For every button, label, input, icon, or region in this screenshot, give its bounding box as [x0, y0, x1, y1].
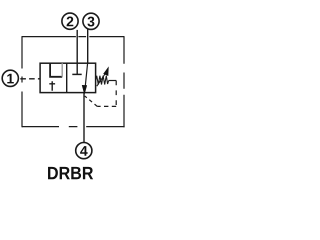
valve body outline: [40, 63, 96, 92]
port 4 circle: [76, 143, 92, 159]
model label DRBR: [48, 167, 58, 179]
cavity boundary left edge: [21, 36, 23, 127]
port 2 circle: [62, 13, 78, 29]
port 1 label: [7, 74, 14, 84]
port 3 circle: [83, 13, 99, 29]
spring: [96, 76, 109, 85]
port 4 label: [80, 146, 87, 156]
pilot vent dashed line down right side: [115, 81, 117, 107]
port 4 wire: [83, 93, 85, 143]
piston window right edge (light): [61, 63, 63, 77]
port 2 label: [67, 17, 74, 27]
cavity boundary bottom edge: [22, 126, 125, 128]
port 1 circle: [2, 70, 18, 86]
flow arrow 3 to 4: [82, 63, 88, 95]
adjustment arrow: [97, 66, 109, 86]
piston window (U shape): [50, 63, 62, 77]
pilot vent line (solid stub at spring end): [109, 80, 117, 82]
port 2 blocked T bar: [72, 73, 81, 75]
cavity boundary top edge: [22, 36, 124, 38]
port 3 label: [87, 17, 94, 27]
port 2 wire (blocked, T end): [76, 30, 78, 75]
valve body internal divider: [66, 63, 68, 92]
seat cross symbol: [49, 81, 55, 91]
cavity boundary right edge: [123, 36, 125, 127]
pilot vent dashed line bottom horizontal: [97, 105, 116, 107]
port 1 dashed pilot wire: [20, 78, 40, 80]
pilot vent dashed diagonal to port 4 node: [85, 96, 98, 107]
port 3 wire: [87, 29, 89, 63]
